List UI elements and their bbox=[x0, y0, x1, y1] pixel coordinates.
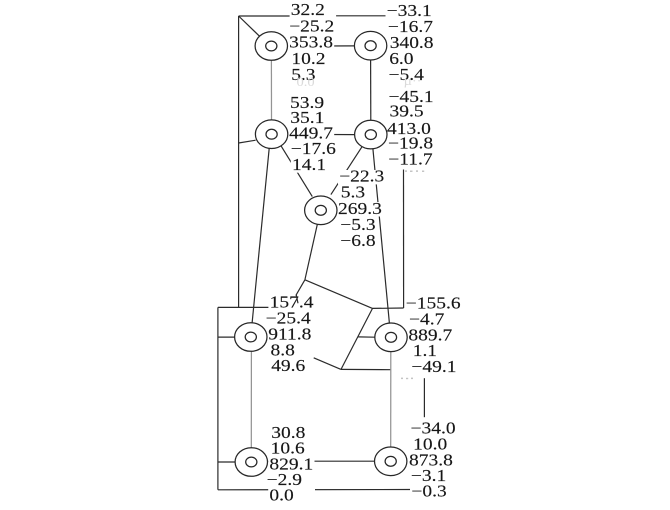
label bg N9 10.0 bbox=[412, 438, 449, 452]
label bg N1 -25.2 bbox=[288, 20, 336, 34]
node N3 bbox=[255, 120, 287, 149]
label bg N4 39.5 bbox=[388, 105, 425, 119]
label bg N1 10.2 bbox=[290, 52, 327, 66]
wire node1-node2 bbox=[287, 45, 355, 47]
label bg N7 1.1 bbox=[412, 344, 439, 358]
wire box-node8 bbox=[218, 461, 235, 463]
wire node3-node5 bbox=[281, 146, 312, 197]
svg-text:14.1: 14.1 bbox=[292, 155, 326, 173]
label bg N3 53.9 bbox=[289, 96, 326, 110]
ghost dots under -11.7 bbox=[401, 170, 424, 379]
wire node6-node8 shaft bbox=[250, 351, 252, 448]
label bg N3 -17.6 bbox=[290, 142, 338, 156]
label bg N3 14.1 bbox=[291, 158, 328, 172]
wire left border bbox=[238, 16, 240, 308]
wire leader near 49.6 bbox=[314, 358, 341, 370]
label bg N5 -5.3 bbox=[339, 218, 377, 232]
svg-text:39.5: 39.5 bbox=[390, 102, 424, 120]
wire box top-left segment bbox=[218, 306, 270, 308]
label bg N7 -155.6 bbox=[405, 297, 462, 311]
wire node1-node3 shaft bbox=[270, 60, 272, 121]
svg-text:0.0: 0.0 bbox=[297, 75, 315, 89]
wire J1 steep diagonal bbox=[341, 308, 373, 369]
wire node5 to bend bbox=[305, 224, 318, 280]
wire box-node6 bbox=[218, 336, 235, 338]
node N8 bbox=[235, 448, 267, 477]
label bg N2 -16.7 bbox=[387, 20, 435, 34]
label bg N6 157.4 bbox=[268, 296, 314, 310]
label bg N8 30.8 bbox=[270, 426, 307, 440]
label bg N5 269.3 bbox=[337, 202, 383, 216]
label bg N2 6.0 bbox=[388, 52, 415, 66]
node N4 bbox=[355, 120, 387, 149]
wire right vertical bbox=[403, 170, 405, 309]
label bg N3 449.7 bbox=[288, 127, 334, 141]
label bg N5 -22.3 bbox=[338, 170, 386, 184]
wire top-right segment bbox=[336, 15, 388, 17]
label bg N2 -5.4 bbox=[387, 68, 425, 82]
label bg N2 340.8 bbox=[389, 36, 435, 50]
svg-text:0.0: 0.0 bbox=[269, 486, 293, 504]
node N1 bbox=[255, 32, 287, 61]
svg-text:−6.8: −6.8 bbox=[340, 231, 375, 249]
node N5 bbox=[305, 196, 337, 225]
label bg N4 -45.1 bbox=[387, 90, 435, 104]
wire node8-node9 bbox=[268, 460, 375, 462]
wire junction-node7 bbox=[358, 336, 375, 338]
node N2 bbox=[354, 31, 386, 60]
label bg N3 35.1 bbox=[289, 112, 326, 126]
label bg N7 889.7 bbox=[407, 329, 453, 343]
svg-text:5.3: 5.3 bbox=[341, 183, 365, 201]
node N7 bbox=[375, 323, 407, 352]
wire horizontal y369 bbox=[341, 368, 391, 370]
label bg N6 49.6 bbox=[270, 360, 307, 374]
wire bend leader to 157.4 bbox=[296, 280, 305, 303]
wire corner to node1 bbox=[239, 16, 260, 36]
wire box bottom edge bbox=[218, 489, 410, 491]
label bg N4 413.0 bbox=[386, 122, 432, 136]
node N9 bbox=[375, 447, 407, 476]
wire node3-node6 bbox=[252, 148, 269, 323]
label bg N8 0.0 bbox=[268, 489, 315, 503]
label bg N7 -4.7 bbox=[408, 313, 446, 327]
label bg N8 829.1 bbox=[268, 458, 314, 472]
label bg N1 5.3 bbox=[290, 68, 317, 82]
svg-text:−49.1: −49.1 bbox=[411, 358, 456, 376]
wire node3-node4 bbox=[288, 133, 355, 135]
label bg N5 -6.8 bbox=[339, 234, 377, 248]
wire node4-node7 bbox=[373, 149, 390, 324]
label bg N4 -11.7 bbox=[387, 153, 435, 167]
wire label connector right bbox=[423, 378, 425, 417]
label bg N5 5.3 bbox=[340, 186, 367, 200]
label bg N7 -49.1 bbox=[410, 360, 458, 374]
wire node4-node5 bbox=[331, 146, 362, 194]
wire bend leader overlap bbox=[296, 295, 298, 303]
svg-text:µ··: µ·· bbox=[404, 74, 422, 88]
label bg N6 -25.4 bbox=[264, 312, 312, 326]
label bg N1 32.2 bbox=[290, 4, 337, 18]
label bg N9 873.8 bbox=[408, 454, 454, 468]
wire J1 to right corner bbox=[373, 307, 404, 309]
label bg N6 911.8 bbox=[267, 328, 313, 342]
svg-text:49.6: 49.6 bbox=[271, 357, 305, 375]
label bg N9 -3.1 bbox=[410, 469, 448, 483]
wire border-node3 bbox=[239, 140, 256, 143]
wire node2-node4 bbox=[370, 59, 372, 121]
svg-text:−11.7: −11.7 bbox=[388, 150, 432, 168]
node N6 bbox=[235, 323, 267, 352]
label bg N9 -34.0 bbox=[409, 422, 457, 436]
wire box left edge bbox=[217, 307, 219, 489]
label bg N4 -19.8 bbox=[387, 137, 435, 151]
label bg N1 353.8 bbox=[288, 36, 334, 50]
wire node7-node9 shaft bbox=[390, 352, 392, 448]
label bg N8 -2.9 bbox=[265, 473, 303, 487]
label bg N6 8.8 bbox=[269, 344, 296, 358]
wire top-left segment bbox=[239, 15, 290, 17]
label bg N9 -0.3 bbox=[410, 485, 448, 499]
svg-text:−0.3: −0.3 bbox=[411, 482, 446, 500]
label bg N2 -33.1 bbox=[386, 4, 434, 18]
label bg N8 10.6 bbox=[270, 442, 307, 456]
wire bend to junction J1 bbox=[305, 280, 373, 309]
